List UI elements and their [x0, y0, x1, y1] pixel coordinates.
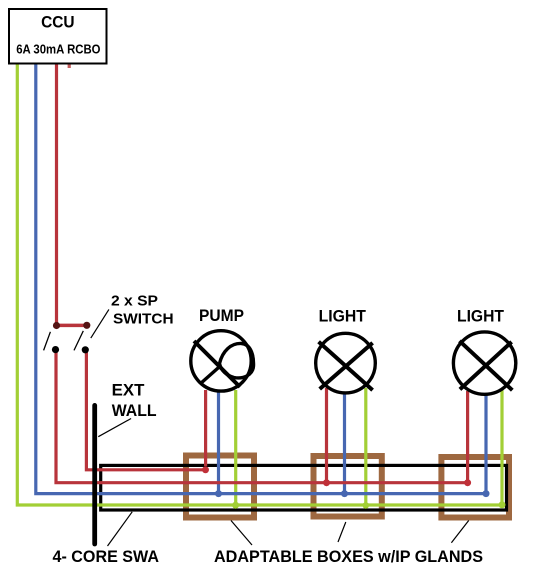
svg-text:WALL: WALL [112, 402, 157, 420]
svg-text:2 x SP: 2 x SP [111, 292, 158, 309]
svg-text:6A 30mA RCBO: 6A 30mA RCBO [16, 42, 100, 57]
svg-text:EXT: EXT [112, 382, 145, 400]
svg-text:CCU: CCU [41, 14, 75, 32]
svg-text:LIGHT: LIGHT [457, 307, 504, 325]
svg-text:LIGHT: LIGHT [319, 307, 366, 325]
svg-text:4- CORE SWA: 4- CORE SWA [53, 547, 160, 566]
svg-text:ADAPTABLE BOXES w/IP GLANDS: ADAPTABLE BOXES w/IP GLANDS [214, 547, 483, 566]
svg-text:PUMP: PUMP [199, 307, 244, 325]
svg-text:SWITCH: SWITCH [113, 311, 174, 328]
